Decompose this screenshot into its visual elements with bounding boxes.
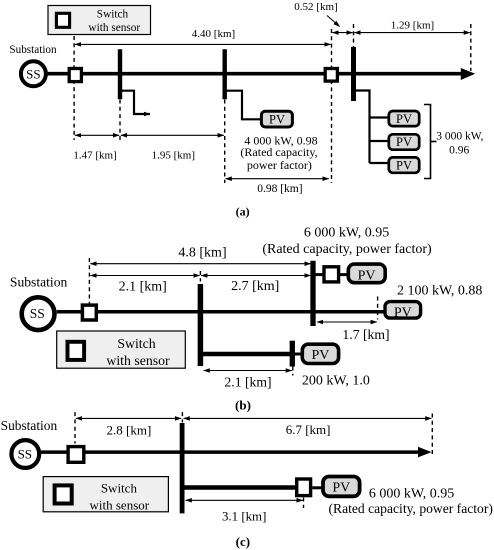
svg-text:Substation: Substation	[1, 418, 58, 433]
svg-text:SS: SS	[30, 306, 45, 321]
svg-text:PV: PV	[396, 135, 412, 149]
svg-text:PV: PV	[311, 348, 329, 363]
svg-text:Substation: Substation	[9, 44, 57, 56]
svg-text:(b): (b)	[235, 397, 251, 412]
svg-text:2.1 [km]: 2.1 [km]	[119, 279, 167, 294]
svg-text:Substation: Substation	[10, 274, 68, 289]
svg-text:with sensor: with sensor	[90, 498, 150, 513]
svg-text:6.7 [km]: 6.7 [km]	[286, 422, 331, 437]
svg-text:PV: PV	[358, 268, 376, 283]
svg-text:Switch: Switch	[97, 9, 129, 21]
svg-text:1.47 [km]: 1.47 [km]	[73, 150, 116, 162]
svg-text:4.40 [km]: 4.40 [km]	[192, 28, 235, 40]
svg-text:PV: PV	[269, 113, 285, 127]
svg-text:3 000 kW,: 3 000 kW,	[436, 131, 483, 143]
svg-text:6 000 kW, 0.95: 6 000 kW, 0.95	[369, 487, 454, 502]
svg-text:Switch: Switch	[101, 481, 138, 496]
svg-text:power factor): power factor)	[247, 158, 312, 172]
svg-text:0.52 [km]: 0.52 [km]	[294, 1, 337, 13]
svg-text:PV: PV	[396, 112, 412, 126]
svg-text:2.1 [km]: 2.1 [km]	[224, 375, 271, 390]
svg-text:0.98 [km]: 0.98 [km]	[257, 183, 302, 195]
svg-text:(c): (c)	[236, 534, 250, 549]
svg-text:4.8 [km]: 4.8 [km]	[178, 246, 226, 261]
svg-text:2 100 kW, 0.88: 2 100 kW, 0.88	[397, 283, 482, 298]
svg-text:SS: SS	[26, 66, 40, 81]
svg-text:with sensor: with sensor	[88, 22, 140, 34]
svg-text:1.7 [km]: 1.7 [km]	[342, 327, 389, 342]
svg-text:(Rated capacity, power factor): (Rated capacity, power factor)	[328, 501, 492, 517]
svg-text:1.95 [km]: 1.95 [km]	[152, 150, 195, 162]
svg-text:Switch: Switch	[117, 336, 155, 351]
svg-text:2.8 [km]: 2.8 [km]	[107, 422, 152, 437]
svg-text:with sensor: with sensor	[106, 353, 170, 368]
svg-text:3.1 [km]: 3.1 [km]	[222, 509, 266, 523]
svg-text:1.29 [km]: 1.29 [km]	[391, 19, 434, 31]
svg-text:PV: PV	[332, 481, 350, 496]
svg-text:PV: PV	[396, 158, 412, 172]
svg-text:(Rated capacity, power factor): (Rated capacity, power factor)	[262, 242, 432, 257]
svg-text:(Rated capacity,: (Rated capacity,	[240, 145, 317, 159]
svg-text:0.96: 0.96	[449, 145, 469, 157]
svg-text:6 000 kW, 0.95: 6 000 kW, 0.95	[304, 226, 389, 241]
svg-text:200 kW, 1.0: 200 kW, 1.0	[302, 374, 370, 389]
svg-text:(a): (a)	[236, 205, 250, 219]
svg-text:PV: PV	[394, 305, 412, 320]
svg-text:2.7 [km]: 2.7 [km]	[231, 279, 279, 294]
svg-text:SS: SS	[18, 446, 32, 461]
